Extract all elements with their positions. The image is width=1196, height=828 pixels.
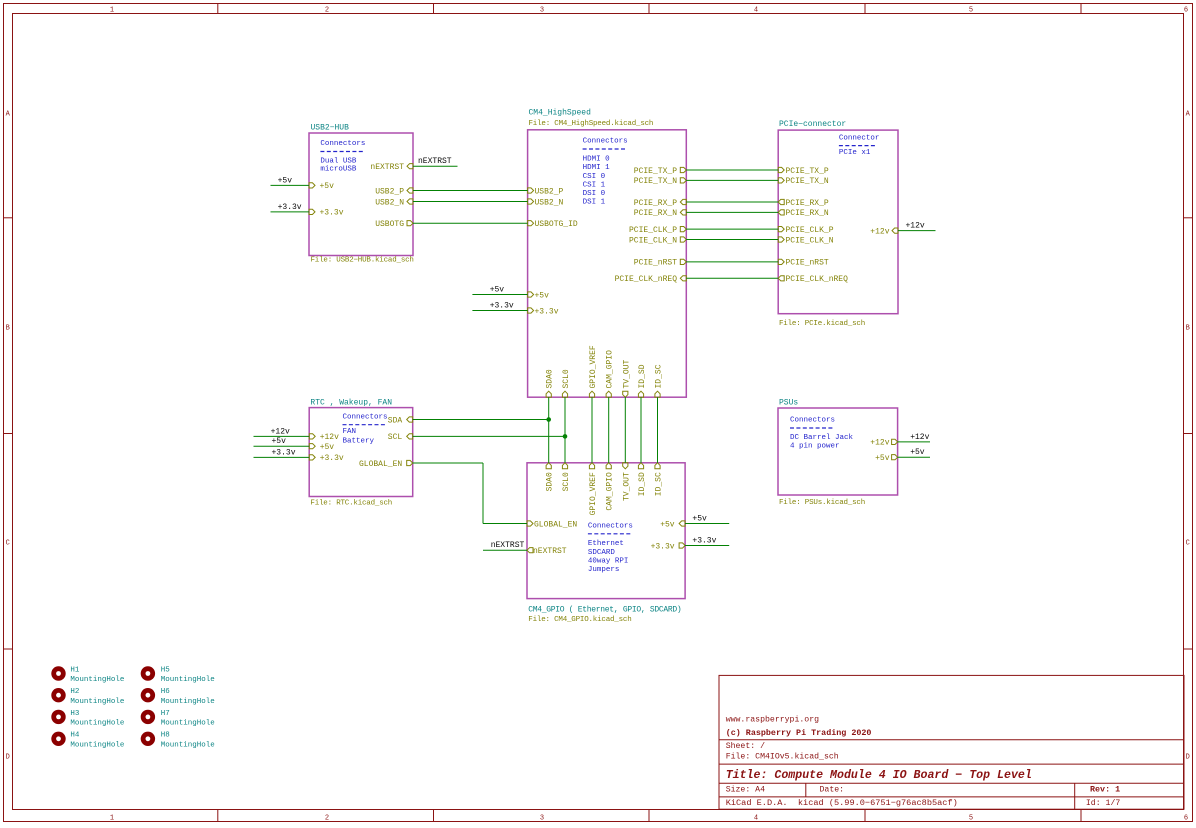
svg-text:+5v: +5v bbox=[320, 443, 335, 452]
sheet pin PCIE_CLK_N (PCIe-connector left) bbox=[778, 237, 784, 242]
svg-text:PCIe x1: PCIe x1 bbox=[839, 149, 871, 157]
svg-text:+5v: +5v bbox=[875, 454, 890, 463]
sheet pin +5v (CM4_GPIO right) bbox=[679, 521, 685, 526]
sheet pin GPIO_VREF (CM4_GPIO top) bbox=[589, 463, 594, 469]
sheet RTC note separator bbox=[343, 424, 385, 426]
title block divider lines bbox=[719, 739, 1184, 741]
svg-text:5: 5 bbox=[969, 815, 973, 823]
wire PCIE_TX_N bbox=[686, 179, 778, 181]
svg-text:PCIE_TX_N: PCIE_TX_N bbox=[634, 177, 677, 186]
svg-text:+3.3v: +3.3v bbox=[272, 448, 296, 457]
svg-text:File: CM4_HighSpeed.kicad_sch: File: CM4_HighSpeed.kicad_sch bbox=[529, 120, 654, 128]
sheet pin +5v (CM4_HighSpeed left) bbox=[528, 292, 534, 297]
wire +3.3v to RTC bbox=[254, 456, 310, 458]
sheet pin SCL0 (CM4_HighSpeed bottom) bbox=[562, 391, 567, 397]
svg-text:Jumpers: Jumpers bbox=[588, 566, 620, 574]
svg-text:A: A bbox=[6, 111, 11, 119]
svg-text:+3.3v: +3.3v bbox=[651, 542, 675, 551]
svg-text:D: D bbox=[1186, 754, 1190, 762]
svg-text:CAM_GPIO: CAM_GPIO bbox=[606, 350, 615, 389]
svg-text:GPIO_VREF: GPIO_VREF bbox=[589, 472, 598, 515]
svg-text:PCIE_RX_N: PCIE_RX_N bbox=[786, 209, 829, 218]
sheet pin USB2_P (USB2-HUB right) bbox=[407, 188, 413, 193]
svg-text:+12v: +12v bbox=[906, 222, 925, 231]
sheet pin PCIE_TX_N (PCIe-connector left) bbox=[778, 178, 784, 183]
svg-text:+5v: +5v bbox=[910, 448, 925, 457]
wire PCIE_CLK_nREQ bbox=[686, 277, 778, 279]
sheet pin ID_SD (CM4_HighSpeed bottom) bbox=[638, 391, 643, 397]
svg-text:MountingHole: MountingHole bbox=[161, 742, 215, 750]
frame row ticks right bbox=[1184, 217, 1193, 219]
wire +3.3v from CM4_GPIO bbox=[685, 545, 729, 547]
svg-text:+5v: +5v bbox=[535, 291, 550, 300]
svg-text:C: C bbox=[6, 540, 10, 548]
svg-text:ID_SD: ID_SD bbox=[638, 472, 647, 496]
svg-text:Title: Compute Module 4 IO Boa: Title: Compute Module 4 IO Board − Top L… bbox=[726, 769, 1032, 782]
sheet pin nEXTRST (USB2-HUB right) bbox=[407, 164, 413, 169]
frame column ticks top bbox=[217, 4, 219, 14]
sheet pin PCIE_RX_P (CM4_HighSpeed right) bbox=[680, 199, 686, 204]
svg-text:H8: H8 bbox=[161, 732, 170, 740]
wire +3.3v to CM4_HighSpeed bbox=[472, 310, 527, 312]
sheet pin SCL0 (CM4_GPIO top) bbox=[562, 463, 567, 469]
svg-text:PCIE_CLK_N: PCIE_CLK_N bbox=[786, 236, 834, 245]
svg-text:nEXTRST: nEXTRST bbox=[370, 163, 404, 172]
svg-text:1: 1 bbox=[110, 815, 114, 823]
sheet PSUs note separator bbox=[790, 427, 832, 429]
sheet CM4_HighSpeed note separator bbox=[583, 148, 625, 150]
wire +5v from CM4_GPIO bbox=[685, 523, 729, 525]
sheet pin SDA0 (CM4_HighSpeed bottom) bbox=[546, 391, 551, 397]
wire nEXTRST from USB2-HUB bbox=[413, 165, 458, 167]
svg-text:MountingHole: MountingHole bbox=[161, 720, 215, 728]
sheet PCIe-connector note separator bbox=[839, 145, 875, 147]
svg-text:PCIE_CLK_nREQ: PCIE_CLK_nREQ bbox=[615, 275, 678, 284]
sheet pin PCIE_CLK_nREQ (PCIe-connector left) bbox=[778, 276, 784, 281]
sheet pin USB2_P (CM4_HighSpeed left) bbox=[528, 188, 534, 193]
svg-text:PCIE_TX_P: PCIE_TX_P bbox=[786, 167, 829, 176]
svg-text:PCIE_TX_P: PCIE_TX_P bbox=[634, 167, 677, 176]
sheet pin +3.3v (CM4_GPIO right) bbox=[679, 543, 685, 548]
sheet pin TV_OUT (CM4_HighSpeed bottom) bbox=[623, 391, 628, 397]
svg-text:Date:: Date: bbox=[820, 786, 845, 795]
svg-text:MountingHole: MountingHole bbox=[70, 698, 124, 706]
svg-text:CSI 0: CSI 0 bbox=[583, 173, 606, 181]
wire +12v from PSUs bbox=[898, 441, 930, 443]
sheet pin GLOBAL_EN (RTC right) bbox=[407, 460, 413, 465]
svg-text:+12v: +12v bbox=[320, 433, 339, 442]
svg-text:File: CM4IOv5.kicad_sch: File: CM4IOv5.kicad_sch bbox=[726, 752, 839, 762]
wire SCL0 vertical bbox=[564, 397, 566, 463]
sheet pin PCIE_nRST (CM4_HighSpeed right) bbox=[680, 259, 686, 264]
svg-text:+5v: +5v bbox=[272, 437, 287, 446]
sheet pin PCIE_RX_P (PCIe-connector left) bbox=[778, 199, 784, 204]
svg-text:B: B bbox=[1186, 325, 1190, 333]
svg-text:KiCad E.D.A. kicad (5.99.0−67: KiCad E.D.A. kicad (5.99.0−6751−g76ac8b5… bbox=[726, 798, 958, 808]
svg-text:Rev: 1: Rev: 1 bbox=[1090, 785, 1120, 795]
wire +3.3v to USB2-HUB bbox=[271, 211, 310, 213]
svg-text:MountingHole: MountingHole bbox=[70, 742, 124, 750]
sheet pin PCIE_RX_N (PCIe-connector left) bbox=[778, 210, 784, 215]
svg-text:File: PSUs.kicad_sch: File: PSUs.kicad_sch bbox=[779, 499, 865, 507]
svg-text:D: D bbox=[6, 754, 10, 762]
sheet CM4_GPIO note separator bbox=[588, 533, 630, 535]
svg-text:PCIE_RX_P: PCIE_RX_P bbox=[634, 199, 677, 208]
sheet pin CAM_GPIO (CM4_GPIO top) bbox=[606, 463, 611, 469]
mounting hole H7 bbox=[141, 710, 155, 724]
wire GPIO_VREF vertical bbox=[591, 397, 593, 463]
svg-text:+5v: +5v bbox=[278, 176, 293, 185]
sheet pin +12v (PSUs right) bbox=[892, 439, 898, 444]
mounting hole H4 bbox=[51, 732, 65, 746]
svg-text:USB2_P: USB2_P bbox=[535, 187, 564, 196]
sheet pin PCIE_TX_P (CM4_HighSpeed right) bbox=[680, 167, 686, 172]
svg-text:File: USB2−HUB.kicad_sch: File: USB2−HUB.kicad_sch bbox=[311, 256, 414, 264]
sheet pin PCIE_RX_N (CM4_HighSpeed right) bbox=[680, 210, 686, 215]
svg-text:SCL0: SCL0 bbox=[562, 369, 571, 388]
sheet pin TV_OUT (CM4_GPIO top) bbox=[623, 463, 628, 469]
sheet pin CAM_GPIO (CM4_HighSpeed bottom) bbox=[606, 391, 611, 397]
wire SCL bbox=[413, 435, 565, 437]
sheet pin +3.3v (CM4_HighSpeed left) bbox=[528, 308, 534, 313]
svg-text:DSI 1: DSI 1 bbox=[583, 198, 606, 206]
svg-text:DC Barrel Jack: DC Barrel Jack bbox=[790, 434, 854, 442]
junction SDA/SDA0 bbox=[546, 417, 551, 422]
wire GLOBAL_EN horizontal from RTC bbox=[413, 462, 483, 464]
mounting hole H1 bbox=[51, 666, 65, 680]
svg-text:USB2_P: USB2_P bbox=[375, 187, 404, 196]
wire PCIE_CLK_N bbox=[686, 239, 778, 241]
svg-text:Ethernet: Ethernet bbox=[588, 540, 624, 548]
svg-text:Connectors: Connectors bbox=[343, 414, 388, 422]
svg-text:SCL0: SCL0 bbox=[562, 472, 571, 491]
junction SCL/SCL0 bbox=[563, 434, 568, 439]
svg-text:4: 4 bbox=[754, 7, 758, 15]
svg-text:+3.3v: +3.3v bbox=[320, 454, 344, 463]
wire SDA0 vertical bbox=[548, 397, 550, 463]
svg-text:(c) Raspberry Pi Trading 2020: (c) Raspberry Pi Trading 2020 bbox=[726, 728, 872, 738]
svg-text:PCIE_CLK_P: PCIE_CLK_P bbox=[629, 226, 677, 235]
wire PCIE_nRST bbox=[686, 261, 778, 263]
svg-text:Size: A4: Size: A4 bbox=[726, 785, 765, 795]
sheet CM4_HighSpeed outline bbox=[528, 130, 687, 397]
svg-text:PCIE_RX_P: PCIE_RX_P bbox=[786, 199, 829, 208]
sheet pin SDA (RTC right) bbox=[407, 417, 413, 422]
wire GLOBAL_EN to CM4_GPIO bbox=[483, 523, 527, 525]
sheet pin USBOTG (USB2-HUB right) bbox=[407, 221, 413, 226]
svg-text:H2: H2 bbox=[70, 688, 79, 696]
sheet pin ID_SC (CM4_HighSpeed bottom) bbox=[655, 391, 660, 397]
svg-text:+5v: +5v bbox=[490, 286, 505, 295]
svg-text:5: 5 bbox=[969, 7, 973, 15]
svg-text:DSI 0: DSI 0 bbox=[583, 190, 606, 198]
svg-text:USBOTG: USBOTG bbox=[375, 220, 404, 229]
sheet pin +5v (USB2-HUB left) bbox=[309, 183, 315, 188]
sheet pin PCIE_CLK_N (CM4_HighSpeed right) bbox=[680, 237, 686, 242]
svg-text:nEXTRST: nEXTRST bbox=[533, 547, 567, 556]
svg-text:1: 1 bbox=[110, 7, 114, 15]
sheet pin +5v (PSUs right) bbox=[892, 455, 898, 460]
svg-text:SDCARD: SDCARD bbox=[588, 549, 616, 557]
svg-text:USB2−HUB: USB2−HUB bbox=[311, 124, 350, 133]
svg-text:SDA: SDA bbox=[388, 416, 403, 425]
svg-text:USBOTG_ID: USBOTG_ID bbox=[535, 220, 578, 229]
sheet PCIe-connector outline bbox=[778, 130, 898, 314]
svg-text:+3.3v: +3.3v bbox=[692, 537, 716, 546]
wire +12v to RTC bbox=[254, 435, 310, 437]
sheet USB2-HUB note separator bbox=[320, 151, 362, 153]
svg-text:2: 2 bbox=[325, 7, 329, 15]
wire USBOTG to USBOTG_ID bbox=[413, 222, 528, 224]
svg-text:Connectors: Connectors bbox=[588, 523, 633, 531]
svg-text:Connectors: Connectors bbox=[320, 140, 365, 148]
svg-text:www.raspberrypi.org: www.raspberrypi.org bbox=[726, 714, 819, 724]
sheet pin +3.3v (USB2-HUB left) bbox=[309, 209, 315, 214]
wire ID_SD vertical bbox=[640, 397, 642, 463]
svg-text:Sheet: /: Sheet: / bbox=[726, 741, 765, 751]
frame column ticks bottom bbox=[217, 810, 219, 822]
sheet pin SDA0 (CM4_GPIO top) bbox=[546, 463, 551, 469]
svg-text:HDMI 1: HDMI 1 bbox=[583, 164, 611, 172]
wire PCIE_RX_P bbox=[686, 201, 778, 203]
svg-text:File: RTC.kicad_sch: File: RTC.kicad_sch bbox=[310, 500, 392, 508]
svg-text:FAN: FAN bbox=[343, 428, 357, 436]
svg-text:+3.3v: +3.3v bbox=[490, 302, 514, 311]
svg-text:CM4_GPIO ( Ethernet, GPIO, SDC: CM4_GPIO ( Ethernet, GPIO, SDCARD) bbox=[528, 606, 681, 615]
svg-text:MountingHole: MountingHole bbox=[161, 698, 215, 706]
svg-text:+5v: +5v bbox=[660, 520, 675, 529]
svg-text:H1: H1 bbox=[70, 666, 80, 674]
sheet pin PCIE_TX_P (PCIe-connector left) bbox=[778, 167, 784, 172]
svg-text:H4: H4 bbox=[70, 732, 80, 740]
svg-text:SCL: SCL bbox=[388, 433, 403, 442]
svg-text:GPIO_VREF: GPIO_VREF bbox=[589, 345, 598, 388]
sheet pin USB2_N (USB2-HUB right) bbox=[407, 199, 413, 204]
sheet pin PCIE_CLK_nREQ (CM4_HighSpeed right) bbox=[680, 276, 686, 281]
sheet pin USB2_N (CM4_HighSpeed left) bbox=[528, 199, 534, 204]
sheet pin PCIE_CLK_P (PCIe-connector left) bbox=[778, 227, 784, 232]
wire +5v to RTC bbox=[254, 445, 310, 447]
svg-text:Connector: Connector bbox=[839, 134, 880, 142]
svg-text:2: 2 bbox=[325, 815, 329, 823]
wire nEXTRST to CM4_GPIO bbox=[483, 549, 527, 551]
svg-text:TV_OUT: TV_OUT bbox=[622, 359, 631, 388]
wire +12v from PCIe-connector bbox=[898, 230, 936, 232]
svg-text:4: 4 bbox=[754, 815, 758, 823]
svg-text:PCIE_CLK_nREQ: PCIE_CLK_nREQ bbox=[786, 275, 849, 284]
mounting hole H5 bbox=[141, 666, 155, 680]
svg-text:4 pin power: 4 pin power bbox=[790, 443, 840, 451]
svg-text:+3.3v: +3.3v bbox=[320, 209, 344, 218]
wire ID_SC vertical bbox=[657, 397, 659, 463]
sheet pin GLOBAL_EN (CM4_GPIO left) bbox=[527, 521, 533, 526]
sheet pin +3.3v (RTC left) bbox=[309, 455, 315, 460]
wire GLOBAL_EN vertical bbox=[482, 463, 484, 524]
svg-text:SDA0: SDA0 bbox=[546, 369, 555, 388]
sheet pin +5v (RTC left) bbox=[309, 444, 315, 449]
wire SDA bbox=[413, 419, 549, 421]
wire +5v to CM4_HighSpeed bbox=[472, 294, 527, 296]
svg-text:File: CM4_GPIO.kicad_sch: File: CM4_GPIO.kicad_sch bbox=[528, 616, 631, 624]
svg-text:+12v: +12v bbox=[271, 427, 290, 436]
sheet USB2-HUB outline bbox=[309, 133, 413, 256]
svg-text:H7: H7 bbox=[161, 710, 170, 718]
sheet pin SCL (RTC right) bbox=[407, 434, 413, 439]
wire +5v to USB2-HUB bbox=[271, 184, 310, 186]
svg-text:PCIe−connector: PCIe−connector bbox=[779, 120, 846, 129]
svg-text:PSUs: PSUs bbox=[779, 399, 798, 408]
svg-text:Id: 1/7: Id: 1/7 bbox=[1086, 798, 1120, 808]
sheet pin USBOTG_ID (CM4_HighSpeed left) bbox=[528, 221, 534, 226]
sheet CM4_GPIO outline bbox=[527, 463, 685, 599]
svg-text:microUSB: microUSB bbox=[320, 166, 357, 174]
svg-text:ID_SD: ID_SD bbox=[638, 364, 647, 388]
svg-text:H3: H3 bbox=[70, 710, 80, 718]
svg-text:Connectors: Connectors bbox=[583, 138, 628, 146]
svg-text:MountingHole: MountingHole bbox=[70, 676, 124, 684]
svg-text:MountingHole: MountingHole bbox=[70, 720, 124, 728]
wire PCIE_TX_P bbox=[686, 169, 778, 171]
svg-text:H6: H6 bbox=[161, 688, 171, 696]
svg-text:Battery: Battery bbox=[343, 438, 375, 446]
svg-text:File: PCIe.kicad_sch: File: PCIe.kicad_sch bbox=[779, 320, 865, 328]
svg-text:H5: H5 bbox=[161, 666, 171, 674]
svg-text:PCIE_TX_N: PCIE_TX_N bbox=[786, 177, 829, 186]
svg-text:Dual USB: Dual USB bbox=[320, 158, 357, 166]
svg-text:nEXTRST: nEXTRST bbox=[491, 541, 525, 550]
sheet pin PCIE_TX_N (CM4_HighSpeed right) bbox=[680, 178, 686, 183]
sheet pin ID_SC (CM4_GPIO top) bbox=[655, 463, 660, 469]
svg-text:+12v: +12v bbox=[910, 433, 929, 442]
svg-text:B: B bbox=[6, 325, 10, 333]
sheet pin +12v (RTC left) bbox=[309, 434, 315, 439]
svg-text:PCIE_CLK_N: PCIE_CLK_N bbox=[629, 236, 677, 245]
frame row ticks left bbox=[4, 217, 13, 219]
svg-text:Connectors: Connectors bbox=[790, 416, 835, 424]
svg-text:SDA0: SDA0 bbox=[546, 472, 555, 491]
sheet pin PCIE_CLK_P (CM4_HighSpeed right) bbox=[680, 227, 686, 232]
svg-text:C: C bbox=[1186, 540, 1190, 548]
svg-text:ID_SC: ID_SC bbox=[655, 472, 664, 496]
svg-text:CM4_HighSpeed: CM4_HighSpeed bbox=[529, 108, 592, 117]
sheet pin +12v (PCIe-connector right) bbox=[892, 228, 898, 233]
svg-text:CAM_GPIO: CAM_GPIO bbox=[606, 472, 615, 511]
wire PCIE_CLK_P bbox=[686, 228, 778, 230]
wire CAM_GPIO vertical bbox=[608, 397, 610, 463]
sheet RTC outline bbox=[309, 408, 413, 497]
svg-text:+5v: +5v bbox=[692, 515, 707, 524]
svg-text:USB2_N: USB2_N bbox=[375, 198, 404, 207]
svg-text:MountingHole: MountingHole bbox=[161, 676, 215, 684]
svg-text:+3.3v: +3.3v bbox=[535, 307, 559, 316]
svg-text:+3.3v: +3.3v bbox=[278, 203, 302, 212]
wire TV_OUT vertical bbox=[624, 397, 626, 463]
svg-text:3: 3 bbox=[540, 815, 544, 823]
svg-text:GLOBAL_EN: GLOBAL_EN bbox=[534, 520, 577, 529]
svg-text:TV_OUT: TV_OUT bbox=[622, 472, 631, 501]
svg-text:PCIE_nRST: PCIE_nRST bbox=[786, 259, 829, 268]
svg-text:3: 3 bbox=[540, 7, 544, 15]
svg-text:ID_SC: ID_SC bbox=[655, 364, 664, 388]
mounting hole H8 bbox=[141, 732, 155, 746]
svg-text:RTC , Wakeup, FAN: RTC , Wakeup, FAN bbox=[310, 398, 392, 407]
sheet pin nEXTRST (CM4_GPIO left) bbox=[527, 548, 533, 553]
svg-text:GLOBAL_EN: GLOBAL_EN bbox=[359, 460, 402, 469]
mounting hole H3 bbox=[51, 710, 65, 724]
svg-text:PCIE_CLK_P: PCIE_CLK_P bbox=[786, 226, 834, 235]
svg-text:6: 6 bbox=[1184, 7, 1188, 15]
wire USB2_P bbox=[413, 190, 528, 192]
wire PCIE_RX_N bbox=[686, 211, 778, 213]
sheet pin PCIE_nRST (PCIe-connector left) bbox=[778, 259, 784, 264]
svg-text:PCIE_nRST: PCIE_nRST bbox=[634, 259, 677, 268]
svg-text:+5v: +5v bbox=[320, 182, 335, 191]
svg-text:PCIE_RX_N: PCIE_RX_N bbox=[634, 209, 677, 218]
svg-text:USB2_N: USB2_N bbox=[535, 198, 564, 207]
svg-text:+12v: +12v bbox=[870, 227, 889, 236]
mounting hole H2 bbox=[51, 688, 65, 702]
svg-text:A: A bbox=[1186, 111, 1191, 119]
svg-text:+12v: +12v bbox=[870, 439, 889, 448]
svg-text:6: 6 bbox=[1184, 815, 1188, 823]
mounting hole H6 bbox=[141, 688, 155, 702]
svg-text:nEXTRST: nEXTRST bbox=[418, 157, 452, 166]
svg-text:40way RPI: 40way RPI bbox=[588, 558, 629, 566]
sheet pin GPIO_VREF (CM4_HighSpeed bottom) bbox=[589, 391, 594, 397]
sheet pin ID_SD (CM4_GPIO top) bbox=[638, 463, 643, 469]
title block outline bbox=[719, 675, 1184, 809]
wire +5v from PSUs bbox=[898, 456, 930, 458]
sheet PSUs outline bbox=[778, 408, 898, 495]
svg-text:CSI 1: CSI 1 bbox=[583, 181, 606, 189]
svg-text:HDMI 0: HDMI 0 bbox=[583, 156, 611, 164]
wire USB2_N bbox=[413, 201, 528, 203]
